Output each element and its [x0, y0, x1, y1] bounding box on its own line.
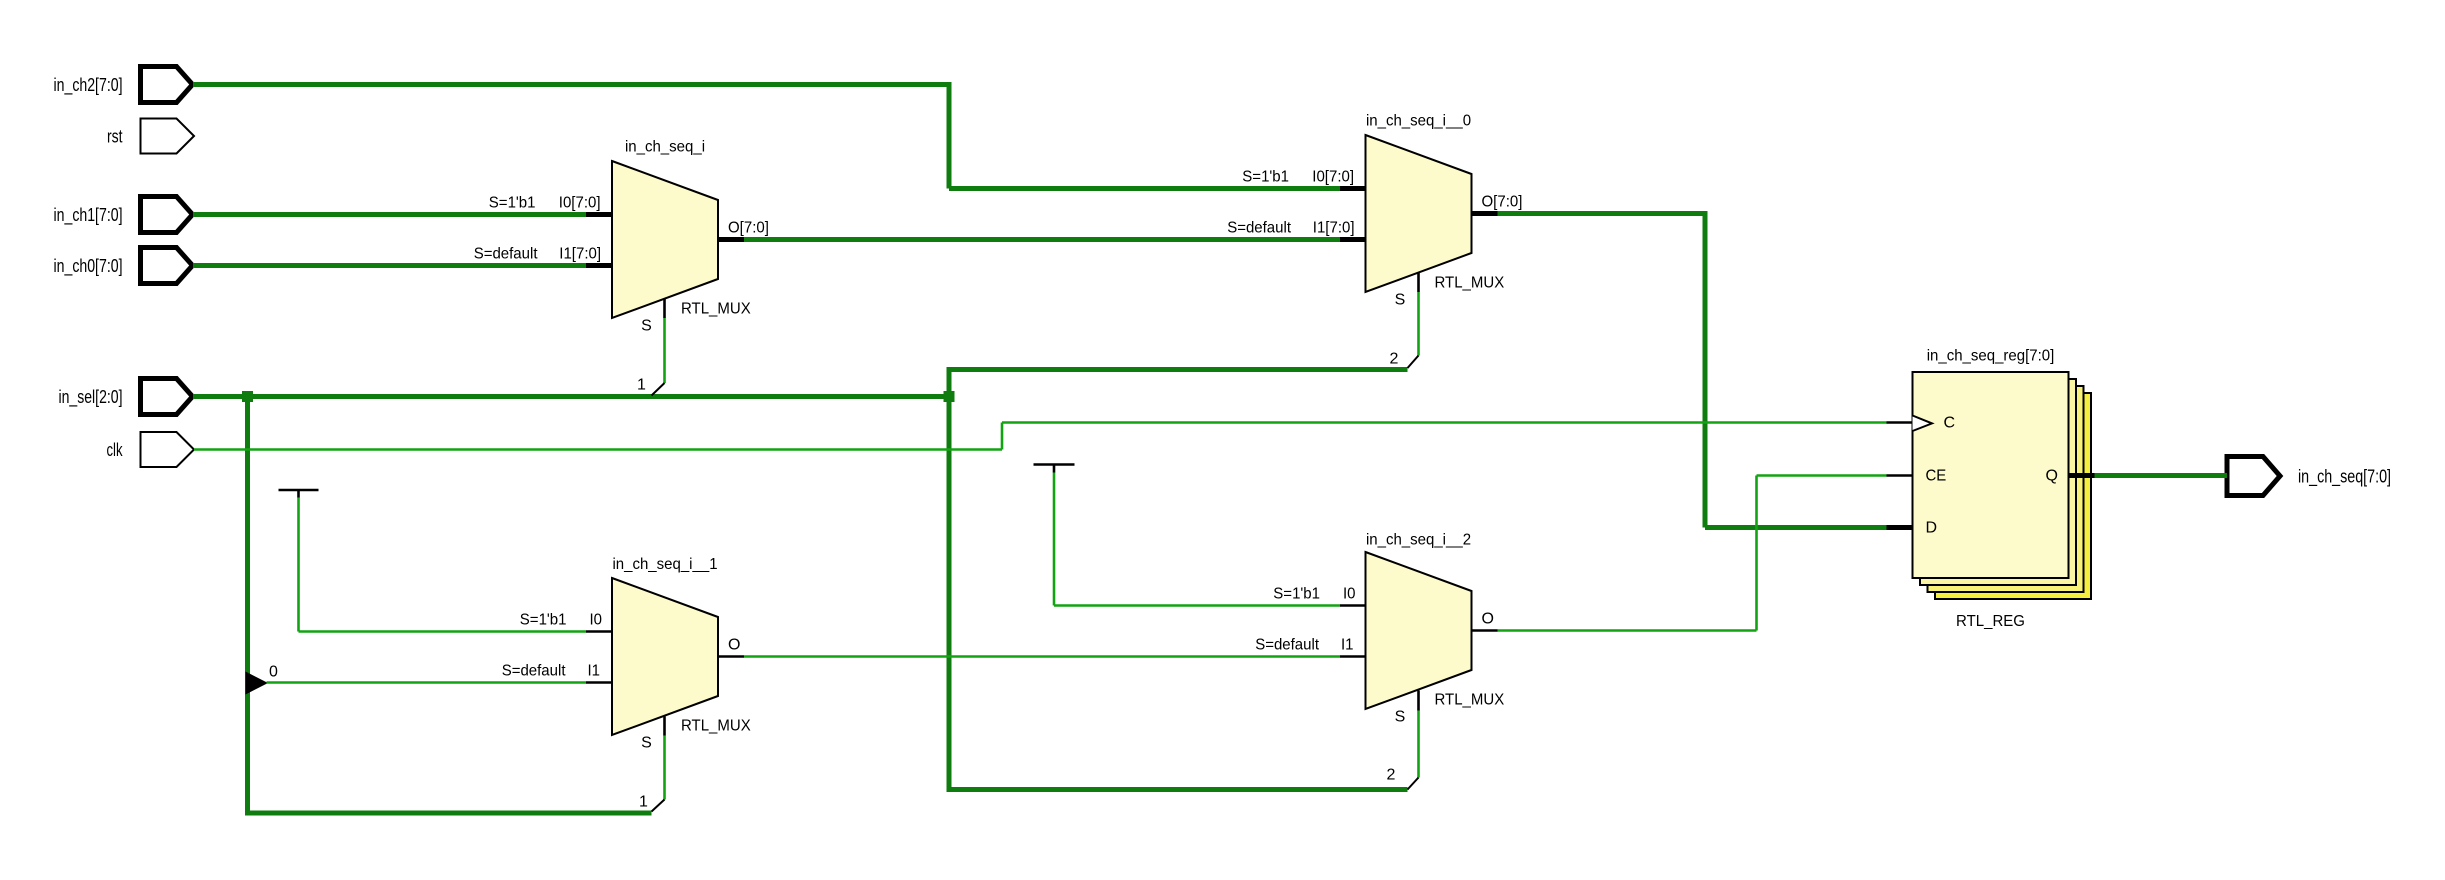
- wire in_ch1 bus to mux U1 I0: [193, 212, 586, 217]
- wire in_ch0 bus to mux U1 I1: [193, 263, 586, 268]
- pin stub mux U2 I1: [1340, 237, 1366, 242]
- pin stub reg C: [1887, 421, 1913, 424]
- svg-text:I1: I1: [588, 663, 601, 680]
- pin stub mux U4 I1: [1340, 655, 1366, 658]
- wire in_ch2 bus segment vertical: [947, 82, 952, 189]
- svg-text:S=default: S=default: [1227, 220, 1291, 237]
- pin stub mux U4 O: [1472, 629, 1498, 632]
- wire mux U2 O vertical: [1703, 211, 1708, 528]
- svg-text:rst: rst: [107, 127, 123, 147]
- svg-text:I0[7:0]: I0[7:0]: [1312, 169, 1354, 186]
- svg-text:O[7:0]: O[7:0]: [728, 220, 769, 237]
- pin stub mux U3 O: [718, 655, 744, 658]
- svg-text:clk: clk: [107, 440, 124, 460]
- svg-text:D: D: [1926, 520, 1938, 537]
- svg-text:in_sel[2:0]: in_sel[2:0]: [59, 387, 123, 408]
- mux U2 in_ch_seq_i__0 body: [1366, 135, 1472, 292]
- pin stub mux U4 S: [1417, 691, 1420, 711]
- wire clk vertical jog: [1001, 423, 1004, 450]
- wire bit0 to mux U3 I1: [267, 681, 587, 684]
- input port in_ch2[7:0]: [54, 67, 193, 103]
- pin stub mux U3 S: [663, 717, 666, 736]
- ripper diagonal mux U1 S: [652, 383, 665, 396]
- pin stub mux U1 I1: [586, 263, 612, 268]
- pin stub mux U2 S: [1417, 273, 1420, 293]
- pin stub mux U2 I0: [1340, 186, 1366, 191]
- mux U1 labels: [474, 139, 769, 335]
- svg-text:CE: CE: [1926, 468, 1947, 485]
- wire mux U1 S vertical: [663, 318, 666, 383]
- svg-text:in_ch_seq_i__2: in_ch_seq_i__2: [1366, 532, 1471, 549]
- mux U3 in_ch_seq_i__1 body: [612, 578, 718, 735]
- pin stub mux U2 O: [1472, 211, 1498, 216]
- svg-text:in_ch_seq[7:0]: in_ch_seq[7:0]: [2298, 467, 2391, 488]
- register stack layer 4: [1935, 393, 2091, 599]
- svg-text:O[7:0]: O[7:0]: [1482, 194, 1523, 211]
- svg-text:S=default: S=default: [502, 663, 566, 680]
- constant stub mux U3: [297, 490, 300, 498]
- wire clk horizontal from port: [194, 448, 1002, 451]
- svg-text:in_ch1[7:0]: in_ch1[7:0]: [54, 205, 123, 226]
- pin stub reg D: [1887, 525, 1913, 530]
- wire mux U4 O horizontal: [1498, 629, 1757, 632]
- register stack layer 2: [1920, 379, 2076, 585]
- wire in_sel trunk: [193, 394, 949, 399]
- wire mux U4 O vertical: [1755, 476, 1758, 631]
- svg-text:RTL_MUX: RTL_MUX: [681, 301, 751, 318]
- svg-text:I0: I0: [1343, 586, 1356, 603]
- svg-text:S: S: [1395, 292, 1406, 309]
- mux U2 labels: [1227, 113, 1522, 309]
- svg-text:in_ch2[7:0]: in_ch2[7:0]: [54, 75, 123, 96]
- input port rst: [107, 119, 194, 154]
- input port in_sel[2:0]: [59, 379, 193, 415]
- wire in_sel right vertical: [947, 367, 952, 792]
- wire in_sel bottom-left horizontal: [245, 811, 652, 816]
- svg-text:I0: I0: [590, 612, 603, 629]
- svg-text:S=1'b1: S=1'b1: [520, 612, 567, 629]
- mux U4 labels: [1255, 532, 1504, 726]
- svg-text:RTL_MUX: RTL_MUX: [1435, 275, 1505, 292]
- svg-text:in_ch_seq_i__0: in_ch_seq_i__0: [1366, 113, 1471, 130]
- wire const to mux U3 I0 horizontal: [299, 630, 587, 633]
- wire in_ch2 bus segment to mux U2 I0: [949, 186, 1340, 191]
- svg-text:S=1'b1: S=1'b1: [1273, 586, 1320, 603]
- pin stub mux U1 O: [718, 237, 744, 242]
- input port clk: [107, 432, 195, 467]
- wire mux U4 S vertical: [1417, 711, 1420, 778]
- wire mux U2 S vertical: [1417, 292, 1420, 356]
- wire to reg D: [1705, 525, 1887, 530]
- mux U3 labels: [502, 556, 751, 752]
- constant stub mux U4: [1053, 465, 1056, 473]
- pin stub mux U1 S: [663, 299, 666, 319]
- svg-text:RTL_MUX: RTL_MUX: [681, 718, 751, 735]
- svg-text:S: S: [641, 318, 652, 335]
- svg-text:O: O: [1482, 611, 1494, 628]
- wire mux U2 O horizontal: [1498, 211, 1706, 216]
- svg-text:1: 1: [639, 794, 648, 811]
- svg-text:O: O: [728, 637, 740, 654]
- svg-text:I1[7:0]: I1[7:0]: [559, 246, 601, 263]
- svg-text:S: S: [1395, 709, 1406, 726]
- svg-text:I0[7:0]: I0[7:0]: [559, 195, 601, 212]
- pin stub reg CE: [1887, 474, 1913, 477]
- pin stub mux U3 I1: [586, 681, 612, 684]
- svg-text:2: 2: [1390, 351, 1399, 368]
- wire const to mux U4 I0 horizontal: [1054, 604, 1340, 607]
- svg-text:0: 0: [269, 664, 278, 681]
- ripper arrow in_sel bit0: [246, 672, 269, 695]
- svg-text:S=default: S=default: [1255, 637, 1319, 654]
- wire reg Q to output port: [2095, 473, 2228, 478]
- pin stub mux U3 I0: [586, 630, 612, 633]
- svg-text:I1[7:0]: I1[7:0]: [1313, 220, 1355, 237]
- svg-text:S=1'b1: S=1'b1: [1242, 169, 1289, 186]
- register clock triangle: [1913, 416, 1933, 432]
- wire to reg CE: [1757, 474, 1887, 477]
- wire clk to reg C: [1002, 421, 1887, 424]
- pin stub reg Q: [2069, 473, 2095, 478]
- wire in_sel branch-2 bottom horizontal: [949, 787, 1408, 792]
- input port in_ch0[7:0]: [54, 248, 193, 284]
- svg-text:S=default: S=default: [474, 246, 538, 263]
- ripper diagonal mux U3 S: [652, 800, 665, 812]
- wire mux U1 O to mux U2 I1: [744, 237, 1340, 242]
- svg-text:S=1'b1: S=1'b1: [489, 195, 536, 212]
- wire in_ch2 bus segment horizontal from port: [193, 82, 952, 87]
- wire mux U3 O to mux U4 I1: [744, 655, 1340, 658]
- junction in_sel A: [242, 391, 253, 402]
- svg-text:in_ch_seq_i__1: in_ch_seq_i__1: [612, 556, 717, 573]
- wire in_sel left vertical: [245, 397, 250, 816]
- wire in_sel branch-2 top horizontal: [949, 367, 1408, 372]
- svg-text:in_ch_seq_i: in_ch_seq_i: [625, 139, 705, 156]
- svg-text:I1: I1: [1341, 637, 1354, 654]
- pin stub mux U4 I0: [1340, 604, 1366, 607]
- svg-text:S: S: [641, 735, 652, 752]
- constant tie-high bar for mux U4: [1034, 463, 1075, 466]
- constant tie-high bar for mux U3: [279, 489, 319, 492]
- svg-text:in_ch0[7:0]: in_ch0[7:0]: [54, 256, 123, 277]
- svg-text:Q: Q: [2046, 468, 2058, 485]
- wire mux U3 S vertical: [663, 736, 666, 800]
- svg-text:1: 1: [637, 377, 646, 394]
- svg-text:C: C: [1944, 415, 1956, 432]
- mux U4 in_ch_seq_i__2 body: [1366, 552, 1472, 709]
- svg-text:RTL_MUX: RTL_MUX: [1435, 692, 1505, 709]
- svg-text:in_ch_seq_reg[7:0]: in_ch_seq_reg[7:0]: [1927, 348, 2055, 365]
- junction in_sel B: [944, 391, 955, 402]
- input port in_ch1[7:0]: [54, 197, 193, 233]
- output port in_ch_seq[7:0]: [2227, 457, 2391, 496]
- wire const to mux U3 I0 vertical: [297, 498, 300, 632]
- register in_ch_seq_reg[7:0] front sheet: [1913, 372, 2069, 578]
- ripper diagonal mux U2 S: [1408, 356, 1419, 369]
- ripper diagonal mux U4 S: [1408, 778, 1419, 790]
- mux U1 in_ch_seq_i body: [612, 161, 718, 318]
- wire const to mux U4 I0 vertical: [1053, 473, 1056, 606]
- register stack layer 3: [1928, 386, 2084, 592]
- pin stub mux U1 I0: [586, 212, 612, 217]
- svg-text:2: 2: [1387, 767, 1396, 784]
- svg-text:RTL_REG: RTL_REG: [1956, 613, 2025, 630]
